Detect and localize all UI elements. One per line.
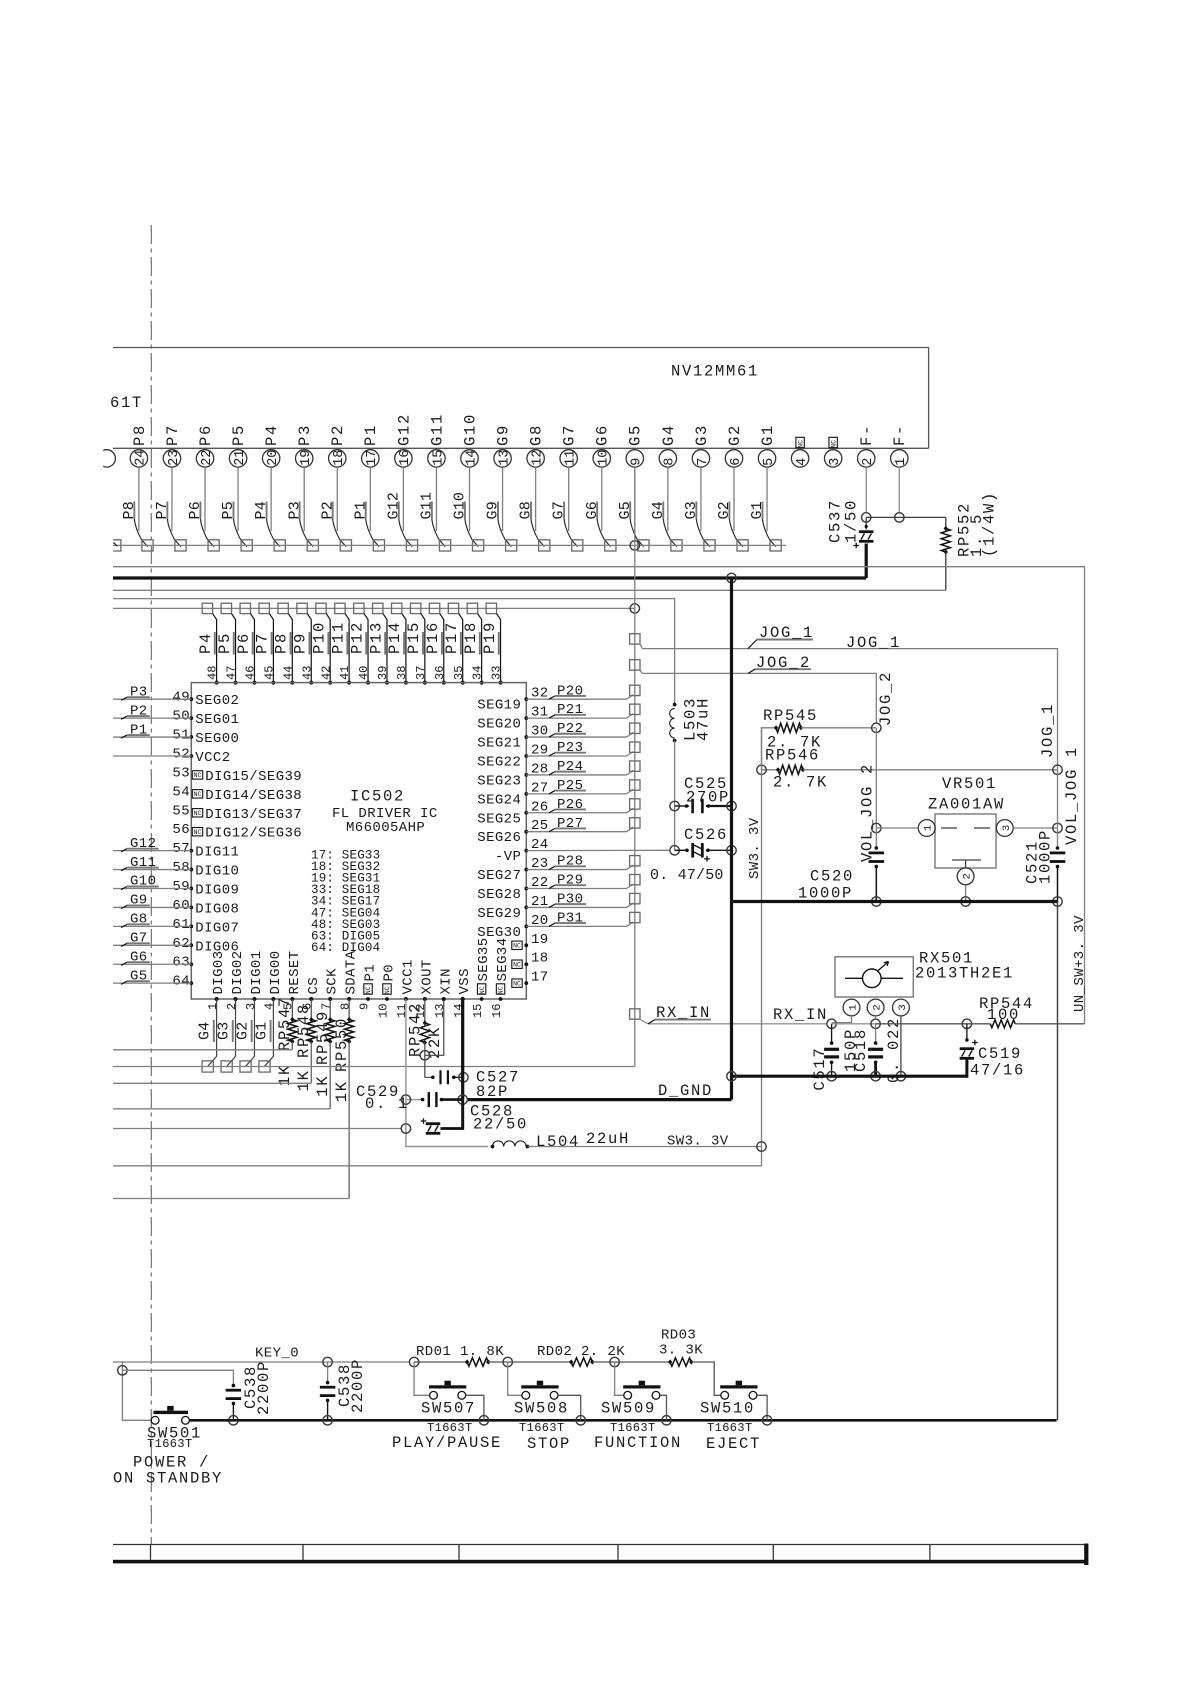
node C518/RP544 wire junction: [871, 1019, 880, 1028]
svg-text:VOL_JOG 1: VOL_JOG 1: [1063, 746, 1081, 845]
node D_GND on thick vertical: [727, 1072, 736, 1081]
svg-text:G8: G8: [130, 912, 148, 928]
svg-text:M66005AHP: M66005AHP: [346, 820, 425, 836]
svg-text:38: 38: [395, 666, 409, 680]
svg-text:P1: P1: [362, 424, 380, 446]
svg-text:ON STANDBY: ON STANDBY: [113, 1470, 223, 1488]
svg-text:G6: G6: [584, 501, 601, 519]
svg-text:CS: CS: [306, 977, 322, 995]
connector pin 1 (F-): [891, 424, 910, 467]
wire net P29 from IC pin 22: [526, 873, 633, 889]
wire P3 connector pin 19 to pad: [286, 467, 313, 546]
IC pin 3 DIG01: [244, 950, 265, 1010]
svg-text:(1/4W): (1/4W): [981, 491, 999, 557]
IC pin 27 SEG24: [477, 780, 548, 808]
node VOL_JOG1: [1053, 823, 1062, 832]
node RP546 left: [757, 765, 766, 774]
wire G4 connector pin 8 to pad: [650, 467, 677, 546]
potentiometer VR501 ZA001AW: [918, 775, 1013, 885]
IC pin 13 XIN: [433, 968, 454, 1018]
svg-text:JOG_1: JOG_1: [1039, 703, 1057, 758]
node VSS gnd: [458, 1095, 467, 1104]
title block table: [113, 1544, 1088, 1566]
svg-text:P26: P26: [557, 797, 583, 813]
node C538a gnd: [229, 1416, 238, 1425]
svg-text:ZA001AW: ZA001AW: [928, 796, 1005, 814]
resistor RP552: [941, 526, 950, 555]
wire node to C527: [425, 1055, 433, 1077]
svg-text:P19: P19: [481, 621, 499, 654]
svg-text:P21: P21: [557, 702, 583, 718]
label RP552 1.5 (1/4W): [956, 491, 999, 557]
svg-text:G10: G10: [130, 874, 156, 890]
svg-text:G3: G3: [216, 1022, 233, 1040]
pad square P1: [373, 540, 384, 551]
wire net P3 to IC pin 49: [113, 684, 191, 700]
wire P6 to IC pin 46: [235, 614, 257, 685]
wire RP547 to left rail: [291, 1042, 293, 1050]
pad square G2: [240, 1061, 251, 1072]
svg-text:DIG07: DIG07: [195, 920, 239, 936]
tap square P25: [630, 780, 640, 790]
wire VR501 pin3: [1013, 827, 1057, 829]
svg-text:60: 60: [172, 898, 190, 914]
wire SW501 feed: [122, 1362, 151, 1420]
svg-text:G9: G9: [485, 501, 502, 519]
svg-text:DIG13/SEG37: DIG13/SEG37: [205, 807, 302, 823]
label SW510: [700, 1400, 761, 1454]
svg-text:G1: G1: [759, 424, 777, 446]
svg-text:D_GND: D_GND: [658, 1082, 713, 1100]
tap square P14: [392, 603, 402, 613]
wire P1 connector pin 17 to pad: [352, 467, 379, 546]
svg-text:21: 21: [233, 450, 248, 466]
svg-text:T1663T: T1663T: [610, 1421, 656, 1435]
svg-text:SEG19: SEG19: [477, 698, 521, 714]
pad square G3: [221, 1061, 232, 1072]
node F- junction pin1: [895, 513, 904, 522]
resistor RD03 3.3K: [615, 1328, 721, 1396]
IC pin mapping list: [311, 849, 380, 955]
tap square P28: [630, 856, 640, 866]
connector pin 22 (P6): [196, 424, 215, 467]
IC pin 12 XOUT: [414, 959, 435, 1018]
wire P16 to IC pin 36: [424, 614, 446, 685]
pad square G11: [439, 540, 450, 551]
wire net P21 from IC pin 31: [526, 702, 633, 718]
connector pin 11 (G7): [560, 424, 579, 467]
RX501 pin 3: [893, 999, 910, 1016]
svg-text:3: 3: [1001, 825, 1013, 831]
svg-text:-VP: -VP: [495, 849, 521, 865]
wire P15 to IC pin 37: [405, 614, 427, 685]
pad square G4: [671, 540, 682, 551]
svg-text:SEG01: SEG01: [195, 712, 239, 728]
svg-text:P2: P2: [329, 424, 347, 446]
wire C537 to thick rail B: [865, 544, 868, 579]
connector pin 24 (P8): [130, 424, 149, 467]
svg-text:DIG14/SEG38: DIG14/SEG38: [205, 788, 302, 804]
tap square P17: [448, 603, 458, 613]
tap square P10: [316, 603, 326, 613]
svg-text:G8: G8: [518, 501, 535, 519]
left rail SW3.3V return: [113, 1165, 762, 1167]
svg-text:3. 3K: 3. 3K: [659, 1343, 703, 1359]
switch SW501 POWER/ON STANDBY: [147, 1406, 202, 1451]
IC pin 59 DIG09: [172, 879, 239, 899]
svg-text:VSS: VSS: [457, 968, 473, 994]
IC pin 51 SEG00: [172, 728, 239, 748]
tap square P6: [240, 603, 250, 613]
pad square G12: [406, 540, 417, 551]
svg-text:NC: NC: [498, 986, 505, 994]
rail KEY_0: [113, 1361, 409, 1363]
svg-text:11: 11: [564, 450, 579, 466]
wire G5 connector pin 9 to pad: [617, 467, 644, 546]
svg-text:DIG00: DIG00: [268, 950, 284, 994]
svg-text:P2: P2: [319, 501, 336, 519]
svg-text:59: 59: [172, 879, 190, 895]
svg-text:NC: NC: [194, 829, 202, 836]
resistor RP548 1K: [295, 997, 316, 1091]
wire net P20 from IC pin 32: [526, 683, 633, 699]
IC pin 26 SEG25: [477, 799, 548, 827]
svg-text:P3: P3: [286, 501, 303, 519]
svg-text:SW3. 3V: SW3. 3V: [747, 817, 763, 879]
svg-text:RP549: RP549: [314, 1010, 332, 1065]
svg-text:P5: P5: [220, 501, 237, 519]
svg-text:SW508: SW508: [514, 1400, 569, 1418]
connector pin 9 (G5): [626, 424, 645, 467]
svg-text:P0: P0: [381, 964, 397, 982]
svg-text:P5: P5: [216, 632, 234, 654]
svg-text:G12: G12: [395, 413, 413, 446]
node VR501 pin2 on bus: [961, 897, 970, 906]
svg-text:SEG26: SEG26: [477, 830, 521, 846]
connector pin 2 (F-): [858, 424, 877, 467]
svg-text:P17: P17: [443, 621, 461, 654]
capacitor C518 0.022: [852, 1017, 903, 1083]
svg-text:18: 18: [332, 450, 347, 466]
wire P10 to IC pin 42: [310, 614, 332, 685]
tap square P7: [259, 603, 269, 613]
svg-text:0. 1: 0. 1: [365, 1095, 409, 1113]
svg-text:33: 33: [490, 666, 504, 680]
svg-text:48: 48: [206, 666, 220, 680]
svg-text:VOL_JOG 2: VOL_JOG 2: [859, 763, 877, 862]
wire RP549 to left rail: [329, 1042, 331, 1109]
IC pin 23 SEG27: [477, 856, 548, 884]
VSS thick column: [460, 997, 464, 1100]
IC pin 7 SCK: [319, 968, 340, 1010]
pad square P2: [340, 540, 351, 551]
left rail RESET: [113, 1049, 292, 1051]
svg-text:8: 8: [663, 458, 678, 466]
wire P7 to IC pin 45: [254, 614, 276, 685]
pad square G9: [506, 540, 517, 551]
svg-text:63: 63: [172, 955, 190, 971]
svg-text:JOG_2: JOG_2: [877, 671, 895, 726]
svg-text:NC: NC: [194, 772, 202, 779]
svg-text:8: 8: [338, 1003, 352, 1010]
wire SW507 to gnd rail: [466, 1395, 484, 1420]
svg-text:G4: G4: [660, 424, 678, 446]
svg-text:NC: NC: [797, 440, 804, 448]
wire JOG_2 column VR row: [875, 728, 877, 828]
pad square P5: [241, 540, 252, 551]
wire net G9 to IC pin 60: [113, 893, 191, 909]
svg-text:P3: P3: [130, 684, 148, 700]
svg-text:61: 61: [172, 917, 190, 933]
wire net P28 from IC pin 23: [526, 854, 633, 870]
wire C518 node to RP544: [876, 1023, 967, 1025]
IC pin 55 DIG13/SEG37: [172, 803, 302, 823]
IC pin 29 SEG22: [477, 742, 548, 770]
bus rail D: [113, 599, 675, 704]
svg-text:SEG22: SEG22: [477, 754, 521, 770]
svg-text:VCC2: VCC2: [195, 750, 230, 766]
IC pin 54 DIG14/SEG38: [172, 784, 302, 804]
capacitor C529 0.1: [356, 1083, 463, 1113]
resistor RP544 100: [967, 995, 1034, 1028]
svg-text:2: 2: [861, 458, 876, 466]
wire IC pin 3 to pad G2: [235, 997, 257, 1066]
node C527 on VSS: [459, 1073, 468, 1082]
svg-text:C526: C526: [684, 826, 728, 844]
svg-text:NC: NC: [384, 986, 391, 994]
svg-text:RX_IN: RX_IN: [656, 1004, 711, 1022]
svg-text:NC: NC: [194, 791, 202, 798]
svg-text:1: 1: [923, 825, 935, 831]
IC pin 22 SEG28: [477, 875, 548, 903]
IC pin 52 VCC2: [172, 746, 230, 766]
svg-text:SEG28: SEG28: [477, 887, 521, 903]
svg-text:P15: P15: [405, 621, 423, 654]
svg-text:1K: 1K: [314, 1075, 332, 1097]
svg-text:P1: P1: [352, 501, 369, 519]
connector pin 4 (NC): [791, 437, 810, 467]
wire -VP IC pin24 to C526: [526, 849, 670, 851]
svg-text:P3: P3: [296, 424, 314, 446]
svg-text:XIN: XIN: [438, 968, 454, 994]
connector pin 7 (G3): [692, 424, 711, 467]
svg-text:13: 13: [433, 1004, 447, 1018]
node C518 gnd: [871, 1072, 880, 1081]
svg-text:P8: P8: [121, 501, 138, 519]
svg-text:JOG_2: JOG_2: [756, 654, 811, 672]
IC pin 58 DIG10: [172, 860, 239, 880]
svg-text:G5: G5: [130, 968, 148, 984]
node C521 on bus: [1053, 897, 1062, 906]
svg-text:P13: P13: [367, 621, 385, 654]
wire net G8 to IC pin 61: [113, 912, 191, 928]
SW3.3V vertical wire: [761, 728, 763, 1166]
svg-text:9: 9: [357, 1003, 371, 1010]
tap square P26: [630, 799, 640, 809]
resistor RP547 1K: [276, 996, 297, 1086]
svg-text:F-: F-: [858, 424, 876, 446]
svg-text:T1663T: T1663T: [519, 1421, 565, 1435]
RX501 pin 1: [843, 999, 860, 1016]
svg-text:G5: G5: [627, 424, 645, 446]
svg-text:1000P: 1000P: [798, 885, 853, 903]
left rail CS: [113, 1082, 311, 1084]
node XOUT/XIN: [420, 1051, 429, 1060]
capacitor C517 150P: [811, 1024, 860, 1091]
IC pin 24 -VP: [495, 837, 549, 865]
wire F- row to RP552: [866, 516, 946, 518]
connector pin 8 (G4): [659, 424, 678, 467]
svg-text:NC: NC: [194, 810, 202, 817]
tap square P13: [373, 603, 383, 613]
svg-text:10: 10: [376, 1004, 390, 1018]
node C529 on VCC1: [401, 1095, 410, 1104]
svg-text:SEG20: SEG20: [477, 717, 521, 733]
left rail C528: [113, 1128, 401, 1130]
wire net G6 to IC pin 63: [113, 949, 191, 965]
IC pin 16 SEG34: [490, 937, 511, 1018]
svg-text:DIG11: DIG11: [195, 845, 239, 861]
tap square P21: [630, 704, 640, 714]
node C538a branch: [118, 1366, 127, 1375]
svg-text:SEG29: SEG29: [477, 906, 521, 922]
node RD02 right: [610, 1357, 619, 1366]
wire SW510 to gnd rail: [757, 1395, 767, 1420]
tap square P24: [630, 761, 640, 771]
svg-text:NV12MM61: NV12MM61: [671, 363, 759, 381]
wire P5 to IC pin 47: [216, 614, 238, 685]
tap square JOG_2: [630, 660, 640, 670]
svg-text:55: 55: [172, 803, 190, 819]
svg-text:P1: P1: [363, 964, 379, 982]
wire RX501 pin3 down: [900, 1016, 902, 1076]
wire RD01 right node to SW508: [508, 1362, 522, 1395]
svg-text:64: 64: [172, 974, 190, 990]
svg-text:40: 40: [357, 666, 371, 680]
wire RD02 right node to SW509: [615, 1362, 624, 1395]
svg-text:3: 3: [244, 1003, 258, 1010]
svg-text:XOUT: XOUT: [419, 959, 435, 994]
node C528 on VCC1: [401, 1124, 410, 1133]
svg-text:RP542: RP542: [407, 1002, 425, 1057]
wire SW508 to gnd rail: [558, 1395, 581, 1420]
svg-text:IC502: IC502: [350, 788, 405, 806]
gnd rail key row (thick): [189, 1419, 1056, 1422]
svg-text:3: 3: [897, 1004, 909, 1010]
svg-text:7: 7: [696, 458, 711, 466]
wire P8 connector pin 24 to pad: [121, 467, 148, 546]
IC pin 2 DIG02: [225, 950, 246, 1010]
svg-text:13: 13: [497, 450, 512, 466]
wire SW509 to gnd rail: [660, 1395, 667, 1420]
svg-text:100: 100: [987, 1006, 1020, 1024]
svg-text:G7: G7: [130, 930, 148, 946]
svg-text:2: 2: [872, 1004, 884, 1010]
wire RX_IN node to C518 node: [832, 1023, 876, 1025]
svg-text:17: 17: [365, 450, 380, 466]
connector pin 16 (G12): [395, 413, 414, 467]
svg-text:T1663T: T1663T: [707, 1421, 753, 1435]
svg-text:2200P: 2200P: [349, 1358, 367, 1413]
wire G7 connector pin 11 to pad: [551, 467, 578, 546]
pad square P3: [307, 540, 318, 551]
svg-text:RP546: RP546: [765, 747, 820, 765]
wire P11 to IC pin 41: [329, 614, 351, 685]
svg-text:G7: G7: [551, 501, 568, 519]
svg-text:22/50: 22/50: [473, 1116, 528, 1134]
svg-text:1/50: 1/50: [843, 499, 861, 543]
svg-text:P31: P31: [557, 910, 583, 926]
svg-text:STOP: STOP: [527, 1435, 571, 1453]
wire P17 to IC pin 35: [443, 614, 465, 685]
svg-text:3: 3: [828, 458, 843, 466]
wire G10 connector pin 14 to pad: [452, 467, 479, 546]
svg-text:P4: P4: [197, 632, 215, 654]
svg-text:SEG35: SEG35: [476, 937, 492, 981]
svg-text:JOG_1: JOG_1: [846, 634, 901, 652]
wire F- pin2 down: [865, 467, 867, 513]
svg-text:10: 10: [597, 450, 612, 466]
svg-text:P12: P12: [348, 621, 366, 654]
zone fold line (dash-dot): [150, 225, 152, 1545]
svg-text:2013TH2E1: 2013TH2E1: [915, 965, 1014, 983]
tap square P27: [630, 818, 640, 828]
svg-text:P7: P7: [164, 424, 182, 446]
svg-text:1K: 1K: [333, 1080, 351, 1102]
wire RX501 pin2 down: [875, 1016, 877, 1019]
svg-text:1: 1: [848, 1004, 860, 1010]
svg-text:P4: P4: [253, 501, 270, 519]
node C525 left: [670, 801, 679, 810]
pad square G1: [259, 1061, 270, 1072]
svg-text:P8: P8: [273, 632, 291, 654]
svg-text:6: 6: [729, 458, 744, 466]
svg-text:56: 56: [172, 822, 190, 838]
svg-text:G11: G11: [418, 492, 435, 520]
svg-text:1: 1: [206, 1003, 220, 1010]
pad square G7: [572, 540, 583, 551]
connector pin 12 (G8): [527, 424, 546, 467]
IC pin 15 SEG35: [471, 937, 492, 1018]
tap square P29: [630, 875, 640, 885]
pad square G10: [473, 540, 484, 551]
resistor RP550 1K: [333, 997, 354, 1102]
tap square P18: [467, 603, 477, 613]
wire VCC2 to IC pin 52: [113, 755, 191, 757]
node C526 left: [670, 846, 679, 855]
wire P2 connector pin 18 to pad: [319, 467, 346, 546]
svg-text:35: 35: [452, 666, 466, 680]
left rail key pads: [113, 1066, 635, 1068]
svg-text:5: 5: [762, 458, 777, 466]
wire P8 to IC pin 44: [273, 614, 295, 685]
tap square P22: [630, 723, 640, 733]
wire P13 to IC pin 39: [367, 614, 389, 685]
wire JOG_2: [640, 654, 895, 726]
svg-text:RESET: RESET: [287, 950, 303, 994]
capacitor C537: [853, 517, 873, 548]
svg-text:P25: P25: [557, 778, 583, 794]
svg-text:P18: P18: [462, 621, 480, 654]
wire G8 connector pin 12 to pad: [518, 467, 545, 546]
IC pin 53 DIG15/SEG39: [172, 765, 302, 785]
IC pin 61 DIG07: [172, 917, 239, 937]
square RX_IN tap: [630, 1009, 640, 1019]
svg-text:P28: P28: [557, 854, 583, 870]
node SW510 gnd: [762, 1416, 771, 1425]
svg-text:G3: G3: [693, 424, 711, 446]
wire RX_IN: [640, 1004, 828, 1024]
